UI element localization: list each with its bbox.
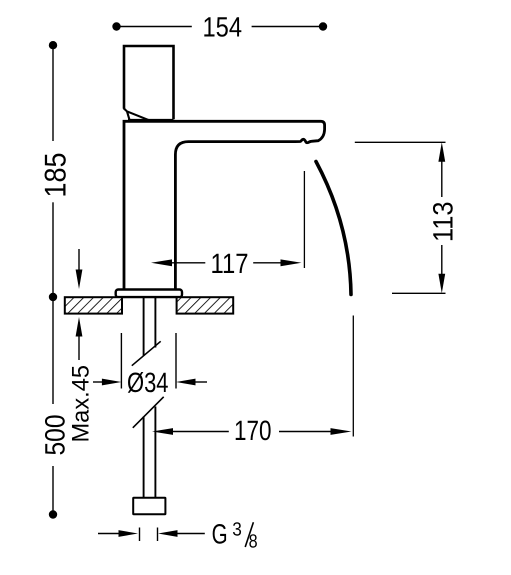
- pipe break slash lower: [133, 397, 164, 428]
- dimension 170: [152, 428, 173, 435]
- countertop hatched section left: [65, 297, 122, 313]
- countertop hatched section right: [177, 297, 234, 313]
- water stream curve: [316, 162, 351, 295]
- dimension 117 spout reach: [151, 259, 172, 266]
- dimension 500 left: [52, 297, 54, 511]
- dimension 113 right: [355, 141, 446, 143]
- base flange: [116, 290, 182, 298]
- dimension Max.45 counter thickness: [78, 249, 80, 271]
- pipe break slash upper: [132, 341, 161, 365]
- dimension G 3/8 thread: [98, 533, 119, 535]
- extension line stream end: [352, 316, 354, 437]
- dimension 154 top: [117, 26, 324, 28]
- svg-text:8: 8: [249, 532, 258, 553]
- supply shank pipe left line: [143, 298, 145, 498]
- svg-text:185: 185: [39, 153, 72, 198]
- handle base seat line: [128, 119, 174, 121]
- faucet handle lever: [124, 46, 174, 119]
- svg-text:170: 170: [234, 415, 272, 446]
- svg-text:3: 3: [232, 519, 242, 540]
- svg-text:Ø34: Ø34: [127, 367, 169, 398]
- dimension 185 left: [52, 45, 54, 297]
- svg-text:113: 113: [428, 202, 459, 243]
- svg-text:G: G: [212, 519, 228, 550]
- handle base notch: [124, 108, 149, 120]
- supply shank pipe right line: [154, 298, 156, 498]
- extension line outlet axis: [303, 171, 305, 268]
- connection nut: [133, 498, 165, 514]
- svg-text:500: 500: [39, 415, 70, 456]
- dimension Ø34: [120, 333, 122, 389]
- faucet body and spout outline: [124, 121, 325, 290]
- svg-text:117: 117: [211, 248, 249, 279]
- svg-text:Max.45: Max.45: [68, 365, 95, 443]
- svg-text:154: 154: [203, 12, 243, 43]
